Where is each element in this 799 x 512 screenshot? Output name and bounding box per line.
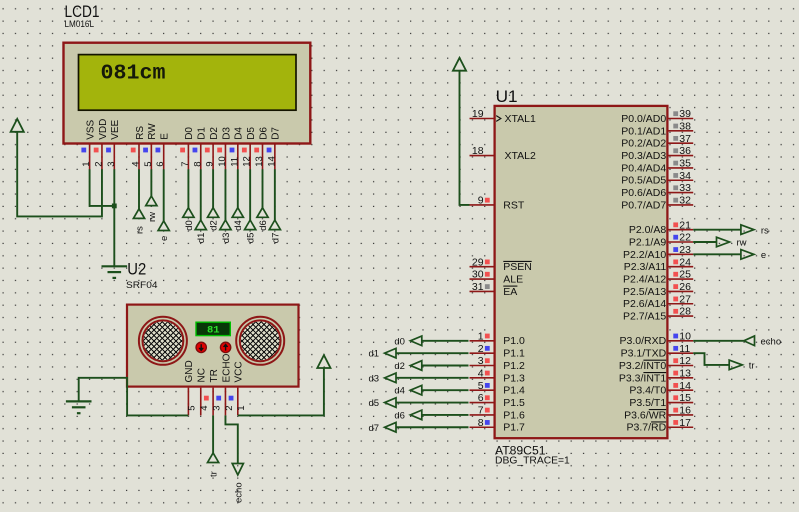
tag arrow d0 (183, 208, 194, 218)
tag arrow d6 (pointing left) (410, 410, 421, 420)
wire P1.7 to tag d7 (396, 426, 469, 428)
svg-text:tr: tr (749, 361, 755, 372)
wire LCD D4 pin down to tag (237, 169, 239, 207)
wire SRF04 TR pin down to tag (212, 415, 214, 453)
svg-text:P2.4/A12: P2.4/A12 (623, 273, 666, 285)
svg-text:36: 36 (679, 145, 691, 157)
svg-text:P3.0/RXD: P3.0/RXD (620, 335, 667, 347)
tag arrow d6 (257, 208, 268, 218)
tag arrow d2 (208, 208, 219, 218)
SRF04 left transducer (139, 317, 187, 365)
svg-text:10: 10 (679, 330, 691, 342)
svg-text:rw: rw (737, 238, 747, 249)
svg-text:8: 8 (478, 417, 484, 429)
svg-text:D3: D3 (221, 127, 232, 140)
svg-text:d7: d7 (369, 423, 380, 434)
svg-text:2: 2 (478, 343, 484, 355)
U1 right pin 34 P0.5/AD5: stub, number, name (667, 179, 693, 181)
svg-text:38: 38 (679, 120, 691, 132)
wire SRF04 GND pin to ground symbol at left (79, 378, 189, 416)
svg-text:9: 9 (478, 195, 484, 207)
U1 right pin 38 P0.1/AD1: stub, number, name (667, 130, 693, 132)
svg-text:DBG_TRACE=1: DBG_TRACE=1 (495, 455, 570, 467)
U1 left pin 1 P1.0: stub, number, name (470, 340, 495, 342)
tag arrow e (158, 221, 169, 231)
svg-text:26: 26 (679, 281, 691, 293)
tag arrow d3 (220, 220, 231, 230)
tag arrow echo below SRF04 (pointing down) (232, 464, 243, 475)
svg-text:U2: U2 (127, 261, 146, 279)
tag arrow rw (146, 196, 157, 206)
svg-text:6: 6 (478, 392, 484, 404)
U1 left pin 5 P1.4: stub, number, name (470, 389, 495, 391)
svg-text:9: 9 (205, 162, 216, 167)
wire P2.2 to tag e (693, 253, 741, 255)
svg-text:4: 4 (131, 162, 142, 167)
svg-text:34: 34 (679, 170, 691, 182)
U1 right pin 24 P2.3/A11: stub, number, name (667, 266, 693, 268)
wire LCD D5 pin down to tag (249, 169, 251, 220)
U1 left pin 18 XTAL2: stub, number, name (470, 155, 495, 157)
svg-text:E: E (160, 133, 171, 140)
svg-text:d5: d5 (246, 233, 257, 244)
svg-text:33: 33 (679, 182, 691, 194)
wire P1.0 to tag d0 (422, 340, 469, 342)
svg-text:22: 22 (679, 232, 691, 244)
SRF04 right transducer (236, 317, 284, 365)
svg-text:5: 5 (187, 406, 198, 411)
U1 right pin 13 P3.3/INT1: stub, number, name (667, 377, 693, 379)
wire VDD pin2 down, left to power rail (17, 132, 102, 217)
svg-text:8: 8 (192, 162, 203, 167)
svg-text:2: 2 (224, 406, 235, 411)
svg-text:17: 17 (679, 417, 691, 429)
svg-text:37: 37 (679, 133, 691, 145)
svg-text:echo: echo (233, 482, 244, 503)
svg-text:LM016L: LM016L (65, 19, 95, 30)
tag arrow d1 (195, 220, 206, 230)
LCD LCD1 screen showing 081cm (79, 55, 297, 111)
wire P1.1 to tag d1 (396, 352, 469, 354)
svg-text:1: 1 (236, 406, 247, 411)
svg-text:12: 12 (242, 156, 253, 167)
svg-text:P3.5/T1: P3.5/T1 (629, 397, 666, 409)
tag arrow d0 (pointing left) (410, 336, 421, 346)
svg-text:P3.4/T0: P3.4/T0 (629, 385, 666, 397)
svg-text:7: 7 (478, 405, 484, 417)
svg-text:39: 39 (679, 108, 691, 120)
svg-text:U1: U1 (496, 87, 518, 106)
svg-text:P2.3/A11: P2.3/A11 (624, 261, 667, 273)
SRF04 up-arrow button (220, 342, 230, 352)
svg-text:5: 5 (143, 162, 154, 167)
tag arrow d4 (232, 208, 243, 218)
svg-text:11: 11 (679, 343, 690, 355)
svg-text:28: 28 (679, 306, 691, 318)
ground symbol below LCD (VSS/VEE) (102, 265, 128, 267)
wire P1.2 to tag d2 (422, 365, 469, 367)
svg-text:TR: TR (209, 369, 220, 382)
power terminal up-arrow above U1 (RST net) (453, 58, 466, 71)
svg-text:PSEN: PSEN (503, 261, 532, 273)
svg-text:P1.3: P1.3 (503, 372, 525, 384)
U1 right pin 15 P3.5/T1: stub, number, name (667, 402, 693, 404)
wire LCD E pin down to tag (163, 169, 165, 221)
wire LCD D1 pin down to tag (200, 169, 202, 220)
svg-text:18: 18 (472, 145, 484, 157)
svg-text:19: 19 (472, 108, 484, 120)
svg-text:P2.2/A10: P2.2/A10 (623, 249, 666, 261)
tag arrow tr (pointing right) (729, 360, 742, 370)
U1 right pin 25 P2.4/A12: stub, number, name (667, 278, 693, 280)
U1 right pin 11 P3.1/TXD: stub, number, name (667, 352, 693, 354)
U1 right pin 12 P3.2/INT0: stub, number, name (667, 365, 693, 367)
svg-text:d3: d3 (221, 233, 232, 244)
tag arrow e (pointing right) (741, 250, 754, 260)
svg-text:2: 2 (93, 162, 104, 167)
tag arrow rw (pointing right) (717, 237, 730, 247)
svg-text:P1.5: P1.5 (503, 397, 525, 409)
U1 left pin 9 RST: stub, number, name (470, 204, 495, 206)
svg-text:30: 30 (472, 269, 484, 281)
U1 left pin 31 EA: stub, number, name (470, 290, 495, 292)
tag arrow echo (pointing left) (744, 336, 755, 346)
svg-text:P3.3/INT1: P3.3/INT1 (619, 372, 666, 384)
U1 right pin 37 P0.2/AD2: stub, number, name (667, 142, 693, 144)
wire power down to RST pin (460, 71, 470, 205)
svg-text:16: 16 (679, 405, 691, 417)
svg-text:VSS: VSS (85, 119, 96, 139)
tag arrow d3 (pointing left) (385, 373, 396, 383)
wire VSS pin1 down and right to VEE column (90, 169, 115, 206)
U1 right pin 36 P0.3/AD3: stub, number, name (667, 155, 693, 157)
svg-text:P0.6/AD6: P0.6/AD6 (621, 187, 666, 199)
U1 right pin 14 P3.4/T0: stub, number, name (667, 389, 693, 391)
svg-text:P0.4/AD4: P0.4/AD4 (621, 162, 666, 174)
svg-text:32: 32 (679, 195, 691, 207)
svg-text:4: 4 (478, 367, 484, 379)
svg-text:d2: d2 (394, 361, 405, 372)
svg-text:VDD: VDD (98, 119, 109, 140)
svg-text:3: 3 (478, 355, 484, 367)
svg-text:e: e (159, 236, 170, 241)
svg-text:D2: D2 (209, 127, 220, 140)
svg-text:P0.7/AD7: P0.7/AD7 (621, 199, 666, 211)
junction dot VSS/VEE net (112, 204, 117, 209)
tag arrow d5 (pointing left) (385, 398, 396, 408)
svg-text:10: 10 (217, 156, 228, 167)
U1 right pin 39 P0.0/AD0: stub, number, name (667, 118, 693, 120)
svg-text:ECHO: ECHO (221, 353, 232, 382)
svg-text:P2.5/A13: P2.5/A13 (623, 286, 666, 298)
svg-text:P0.2/AD2: P0.2/AD2 (621, 138, 666, 150)
U1 right pin 32 P0.7/AD7: stub, number, name (667, 204, 693, 206)
svg-text:d0: d0 (184, 220, 195, 231)
svg-text:VCC: VCC (234, 361, 245, 382)
U1 right pin 27 P2.6/A14: stub, number, name (667, 303, 693, 305)
ground symbol left of SRF04 (66, 400, 92, 402)
wire LCD D0 pin down to tag (187, 169, 189, 207)
svg-text:P3.1/TXD: P3.1/TXD (621, 348, 667, 360)
svg-text:24: 24 (679, 256, 691, 268)
svg-text:SRF04: SRF04 (126, 280, 158, 291)
svg-text:P1.1: P1.1 (503, 348, 525, 360)
U1 right pin 23 P2.2/A10: stub, number, name (667, 253, 693, 255)
wire VEE pin3 down to ground (113, 169, 115, 266)
svg-text:7: 7 (180, 162, 191, 167)
svg-text:P2.6/A14: P2.6/A14 (623, 298, 666, 310)
svg-text:D0: D0 (184, 127, 195, 140)
U1 right pin 22 P2.1/A9: stub, number, name (667, 241, 693, 243)
svg-text:4: 4 (199, 406, 210, 411)
svg-text:D5: D5 (246, 127, 257, 140)
svg-text:d1: d1 (369, 349, 380, 360)
svg-text:1: 1 (81, 162, 92, 167)
wire LCD RS pin down to tag (138, 169, 140, 209)
U1 left pin 6 P1.5: stub, number, name (470, 402, 495, 404)
wire LCD RW pin down to tag (150, 169, 152, 196)
svg-text:13: 13 (254, 156, 265, 167)
svg-text:d4: d4 (233, 220, 244, 231)
U1 left pin 8 P1.7: stub, number, name (470, 426, 495, 428)
svg-text:P3.7/RD: P3.7/RD (627, 422, 667, 434)
tag arrow d7 (pointing left) (385, 422, 396, 432)
svg-text:P1.6: P1.6 (503, 409, 525, 421)
svg-text:rs: rs (761, 225, 769, 236)
svg-text:P0.5/AD5: P0.5/AD5 (621, 175, 666, 187)
svg-text:P3.6/WR: P3.6/WR (624, 409, 666, 421)
wire P3.1 jog down to tag tr (693, 353, 729, 365)
svg-text:EA: EA (503, 286, 517, 298)
wire P3.0 to tag echo (693, 340, 744, 342)
power terminal up-arrow right of SRF04 (VCC) (317, 355, 330, 368)
svg-text:VEE: VEE (110, 119, 121, 139)
U1 right pin 10 P3.0/RXD: stub, number, name (667, 340, 693, 342)
U1 right pin 16 P3.6/WR: stub, number, name (667, 414, 693, 416)
svg-text:d2: d2 (209, 220, 220, 231)
svg-text:D1: D1 (197, 127, 208, 140)
LCD LCD1 body (64, 43, 311, 144)
svg-text:GND: GND (184, 360, 195, 382)
tag arrow d2 (pointing left) (410, 361, 421, 371)
svg-text:rs: rs (134, 226, 145, 234)
svg-text:35: 35 (679, 158, 691, 170)
SRF04 distance display reading 81 (196, 322, 230, 335)
tag arrow rs (pointing right) (741, 225, 754, 235)
U1 right pin 17 P3.7/RD: stub, number, name (667, 426, 693, 428)
wire P1.5 to tag d5 (396, 402, 469, 404)
svg-text:d7: d7 (270, 233, 281, 244)
svg-text:81: 81 (207, 325, 220, 337)
svg-text:P2.0/A8: P2.0/A8 (629, 224, 667, 236)
microcontroller U1 body (495, 106, 668, 438)
svg-text:echo: echo (761, 336, 782, 347)
svg-text:13: 13 (679, 367, 691, 379)
svg-text:12: 12 (679, 355, 691, 367)
wire P1.4 to tag d4 (422, 389, 469, 391)
svg-text:d6: d6 (394, 410, 405, 421)
U1 left pin 29 PSEN: stub, number, name (470, 266, 495, 268)
svg-text:P1.4: P1.4 (503, 385, 525, 397)
svg-text:P0.0/AD0: P0.0/AD0 (621, 113, 666, 125)
svg-text:d0: d0 (394, 336, 405, 347)
U1 left pin 2 P1.1: stub, number, name (470, 352, 495, 354)
svg-text:29: 29 (472, 256, 484, 268)
svg-text:25: 25 (679, 269, 691, 281)
tag arrow tr below SRF04 (208, 453, 219, 463)
svg-text:3: 3 (211, 406, 222, 411)
svg-text:XTAL2: XTAL2 (505, 150, 536, 162)
power terminal up-arrow at left (VDD supply) (11, 119, 24, 132)
svg-text:tr: tr (209, 471, 220, 477)
svg-text:6: 6 (155, 162, 166, 167)
svg-text:5: 5 (478, 380, 484, 392)
svg-text:14: 14 (266, 156, 277, 167)
U1 right pin 35 P0.4/AD4: stub, number, name (667, 167, 693, 169)
wire P2.1 to tag rw (693, 241, 716, 243)
svg-text:ALE: ALE (503, 273, 523, 285)
U1 left pin 4 P1.3: stub, number, name (470, 377, 495, 379)
svg-text:D7: D7 (271, 127, 282, 140)
svg-text:NC: NC (197, 368, 208, 382)
wire LCD D6 pin down to tag (262, 169, 264, 207)
svg-text:d6: d6 (258, 220, 269, 231)
svg-text:rw: rw (147, 212, 158, 222)
svg-text:d3: d3 (369, 373, 380, 384)
svg-text:e: e (761, 250, 766, 261)
svg-text:D6: D6 (258, 127, 269, 140)
svg-text:d4: d4 (394, 386, 405, 397)
tag arrow d4 (pointing left) (410, 385, 421, 395)
svg-text:P0.3/AD3: P0.3/AD3 (621, 150, 666, 162)
tag arrow d5 (245, 220, 256, 230)
svg-text:31: 31 (472, 281, 484, 293)
U1 left pin 7 P1.6: stub, number, name (470, 414, 495, 416)
svg-text:D4: D4 (234, 127, 245, 140)
U1 right pin 26 P2.5/A13: stub, number, name (667, 290, 693, 292)
U1 right pin 21 P2.0/A8: stub, number, name (667, 229, 693, 231)
XTAL1 clock mark (496, 116, 501, 122)
U1 right pin 33 P0.6/AD6: stub, number, name (667, 192, 693, 194)
svg-text:d1: d1 (196, 233, 207, 244)
svg-text:P2.7/A15: P2.7/A15 (623, 311, 666, 323)
wire LCD D7 pin down to tag (274, 169, 276, 220)
SRF04 down-arrow button (196, 342, 206, 352)
svg-text:P1.2: P1.2 (503, 360, 525, 372)
svg-text:P2.1/A9: P2.1/A9 (629, 236, 667, 248)
wire P1.6 to tag d6 (422, 414, 469, 416)
svg-text:3: 3 (106, 162, 117, 167)
U1 left pin 30 ALE: stub, number, name (470, 278, 495, 280)
wire SRF04 ECHO pin down-right-down to tag (225, 415, 237, 463)
tag arrow d7 (269, 220, 280, 230)
tag arrow rs (133, 209, 144, 219)
SRF04 U2 body (127, 305, 299, 387)
U1 left pin 19 XTAL1: stub, number, name (470, 118, 495, 120)
wire LCD D3 pin down to tag (224, 169, 226, 220)
svg-text:14: 14 (679, 380, 691, 392)
svg-text:XTAL1: XTAL1 (505, 113, 536, 125)
svg-text:P0.1/AD1: P0.1/AD1 (621, 125, 666, 137)
svg-text:P1.0: P1.0 (503, 335, 525, 347)
svg-text:081cm: 081cm (101, 63, 166, 86)
svg-text:d5: d5 (369, 398, 380, 409)
svg-text:27: 27 (679, 293, 691, 305)
svg-text:1: 1 (478, 330, 484, 342)
svg-text:21: 21 (679, 219, 691, 231)
tag arrow d1 (pointing left) (385, 348, 396, 358)
svg-text:15: 15 (679, 392, 691, 404)
U1 right pin 28 P2.7/A15: stub, number, name (667, 315, 693, 317)
svg-text:23: 23 (679, 244, 691, 256)
svg-text:RST: RST (503, 199, 525, 211)
wire SRF04 VCC pin right and up to power (238, 368, 324, 415)
svg-text:11: 11 (229, 157, 240, 167)
wire P1.3 to tag d3 (396, 377, 469, 379)
U1 left pin 3 P1.2: stub, number, name (470, 365, 495, 367)
wire LCD D2 pin down to tag (212, 169, 214, 207)
svg-text:RW: RW (147, 123, 158, 140)
wire P2.0 to tag rs (693, 229, 741, 231)
svg-text:RS: RS (135, 126, 146, 140)
svg-text:P3.2/INT0: P3.2/INT0 (619, 360, 666, 372)
svg-text:P1.7: P1.7 (503, 422, 525, 434)
